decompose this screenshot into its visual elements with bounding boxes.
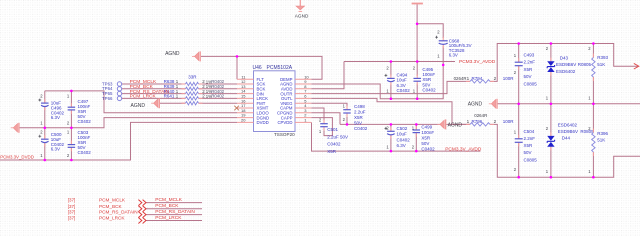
- junction (390.9,98.7): [390, 97, 393, 100]
- wire C494 column: [390, 62, 392, 99]
- svg-text:PCM5102A: PCM5102A: [267, 65, 293, 71]
- svg-text:2.2uF: 2.2uF: [354, 110, 366, 115]
- svg-text:1: 1: [467, 76, 470, 81]
- svg-text:[37]: [37]: [68, 198, 76, 203]
- svg-text:100R: 100R: [503, 119, 515, 124]
- wire CAPM to C501: [311, 108, 324, 124]
- svg-text:ESD6402: ESD6402: [556, 69, 576, 74]
- capacitor C496: [44, 99, 46, 103]
- wire AGND rail right to edge: [497, 103, 640, 105]
- svg-text:C0402: C0402: [327, 142, 341, 147]
- wire C498 bottom: [346, 113, 348, 124]
- svg-text:PCM_MCLK: PCM_MCLK: [155, 197, 182, 203]
- svg-text:PCM3.3V_AVDD: PCM3.3V_AVDD: [459, 59, 496, 65]
- wire C503 column: [70, 128, 72, 160]
- off-sheet exit OUT_R: [634, 63, 639, 69]
- wire CAPP to C501 bottom: [311, 118, 332, 136]
- wire VNEG to C498: [311, 103, 347, 110]
- svg-text:2: 2: [494, 76, 497, 81]
- svg-text:ESD6402: ESD6402: [558, 123, 578, 128]
- ground AGND arrow right mid: [491, 100, 495, 108]
- wire OUTR to R794: [311, 81, 470, 93]
- svg-text:2.2nF: 2.2nF: [524, 136, 536, 141]
- svg-text:C499: C499: [421, 125, 432, 130]
- svg-text:[37]: [37]: [68, 216, 76, 221]
- wire PCM3.3V_DVDD rail / DVDD pin20: [0, 122, 237, 160]
- svg-text:X5R: X5R: [354, 115, 364, 120]
- svg-text:TP66: TP66: [102, 96, 113, 101]
- wire C968 branch: [417, 24, 443, 65]
- svg-text:C0402: C0402: [78, 150, 92, 155]
- capacitor C495: [416, 74, 418, 78]
- ground AGND arrow row B: [440, 120, 444, 128]
- ground AGND floating top: [299, 0, 301, 6]
- svg-text:6.3V: 6.3V: [51, 147, 60, 152]
- svg-text:[37]: [37]: [68, 210, 76, 215]
- ground AGND arrow left ladder: [13, 124, 17, 132]
- svg-text:C0402: C0402: [397, 88, 411, 93]
- svg-text:AGND: AGND: [448, 122, 463, 128]
- svg-text:R0402: R0402: [211, 94, 224, 99]
- svg-text:AGND: AGND: [165, 51, 180, 57]
- junction (71.4,90.9): [70, 90, 73, 93]
- svg-text:PCM3.3V_AVDD: PCM3.3V_AVDD: [445, 146, 482, 152]
- resistor R796 100R: [466, 123, 470, 125]
- capacitor C501: [323, 120, 325, 124]
- svg-text:R0805: R0805: [578, 62, 592, 67]
- capacitor C504: [518, 135, 520, 139]
- svg-text:C493: C493: [524, 53, 535, 58]
- svg-text:C0805: C0805: [524, 81, 538, 86]
- junction (416.3,151.1): [415, 150, 418, 153]
- svg-text:C0402: C0402: [78, 119, 92, 124]
- svg-text:PCM_LRCK: PCM_LRCK: [155, 215, 182, 221]
- svg-text:10uF: 10uF: [51, 137, 62, 142]
- junction (443.2,64.9): [442, 64, 445, 67]
- svg-text:6.3V: 6.3V: [397, 143, 406, 148]
- svg-text:C0402: C0402: [422, 88, 436, 93]
- resistor R794 100R: [466, 80, 470, 82]
- wire local AGND rail (C498/C502/C499): [340, 123, 440, 125]
- wire C497 column: [70, 91, 72, 128]
- wire R796 out riser / OUT_L rail: [490, 124, 640, 177]
- wire AGND loop FLT/DEMP: [201, 56, 322, 79]
- wire C495 column: [416, 62, 418, 99]
- svg-text:R796: R796: [472, 119, 483, 124]
- svg-text:U46: U46: [253, 65, 262, 71]
- capacitor C503: [70, 141, 72, 145]
- svg-text:C0402: C0402: [421, 146, 435, 151]
- junction (518.7,43.5): [517, 42, 520, 45]
- wire C496 column: [44, 91, 46, 128]
- svg-text:R393: R393: [597, 55, 608, 60]
- resistor R640 33R: [182, 93, 186, 95]
- svg-text:PCM_BCK: PCM_BCK: [99, 204, 123, 209]
- wire AGND mid rail / DGND pin19: [19, 118, 237, 128]
- svg-text:ESD9B6V: ESD9B6V: [556, 62, 576, 67]
- junction (550.9,103.8): [550, 103, 553, 106]
- wire PCM_BCK stub bottom: [146, 208, 202, 210]
- wire power port stem: [416, 4, 418, 61]
- svg-text:R794: R794: [472, 76, 483, 81]
- svg-text:C502: C502: [397, 126, 408, 131]
- wire C493 column: [518, 44, 520, 104]
- svg-text:X5R: X5R: [327, 149, 337, 154]
- wire CPGND riser: [311, 113, 340, 125]
- junction (347,124.4): [346, 123, 349, 126]
- wire PCM_LRCK stub bottom: [146, 220, 202, 222]
- testpoint TP64: [117, 87, 121, 91]
- junction (518.7,177.2): [517, 176, 520, 179]
- svg-text:6.3V: 6.3V: [449, 53, 458, 58]
- svg-text:20: 20: [241, 118, 246, 123]
- power port PCM3.3V_AVDD bar: [412, 3, 423, 5]
- capacitor C498: [346, 106, 348, 110]
- testpoint TP65: [117, 91, 121, 95]
- svg-text:[37]: [37]: [68, 204, 76, 209]
- svg-text:DVDD: DVDD: [257, 120, 269, 125]
- svg-text:6.3V: 6.3V: [51, 115, 60, 120]
- svg-text:AGND: AGND: [468, 102, 483, 108]
- svg-text:D44: D44: [562, 136, 571, 141]
- capacitor C494: [390, 74, 392, 78]
- svg-text:X5R: X5R: [524, 143, 534, 148]
- resistor R641 33R: [182, 97, 186, 99]
- junction (44.8,160): [44, 159, 47, 162]
- op IC U46 PCM5102A box: [254, 71, 296, 132]
- svg-text:X5R: X5R: [524, 67, 534, 72]
- wire FMT row to AGND arrow: [160, 102, 237, 104]
- resistor R639 33R: [182, 88, 186, 90]
- svg-text:C504: C504: [524, 129, 535, 134]
- pin stubs left: [237, 78, 254, 80]
- junction (593.4,103.8): [592, 103, 595, 106]
- svg-text:100nF: 100nF: [421, 130, 434, 135]
- svg-text:2: 2: [494, 119, 497, 124]
- ground AGND arrow FMT: [154, 99, 158, 107]
- svg-text:10uF: 10uF: [397, 132, 408, 137]
- wire PCM_RS_DATAIN row: [122, 93, 237, 95]
- junction (71.4,160): [70, 159, 73, 162]
- svg-text:50V: 50V: [354, 121, 362, 126]
- svg-text:51K: 51K: [597, 137, 605, 142]
- svg-text:50V: 50V: [421, 141, 429, 146]
- capacitor C493: [518, 58, 520, 62]
- junction (390.9,151.1): [390, 150, 393, 153]
- testpoint TP66: [117, 96, 121, 100]
- wire PCM3.3V_AVDD top rail: [344, 61, 455, 63]
- svg-text:C501: C501: [327, 127, 338, 132]
- svg-text:R396: R396: [597, 131, 608, 136]
- wire AVDD pin8 to top rail: [311, 62, 344, 89]
- wire C499 column: [415, 124, 417, 151]
- wire R794 out riser / OUT_R rail: [490, 44, 638, 82]
- svg-text:50V: 50V: [524, 74, 532, 79]
- junction (550.9,177.2): [550, 176, 553, 179]
- wire R396 column: [592, 104, 594, 177]
- wire PCM_MCLK row: [122, 83, 237, 85]
- svg-text:X5R: X5R: [421, 136, 431, 141]
- wire PCM_BCK row: [122, 88, 237, 90]
- svg-text:PCM_LRCK: PCM_LRCK: [99, 216, 125, 221]
- pin stubs right: [295, 121, 311, 123]
- junction (593.4,43.5): [592, 42, 595, 45]
- ground AGND arrow top loop: [195, 52, 199, 60]
- wire FLT riser: [236, 56, 238, 79]
- svg-text:51K: 51K: [597, 62, 605, 67]
- svg-text:2.2uF 50V: 2.2uF 50V: [327, 135, 348, 140]
- capacitor C500: [44, 135, 46, 139]
- svg-text:PCM_BCK: PCM_BCK: [155, 203, 179, 209]
- junction (416.3,124.4): [415, 123, 418, 126]
- svg-text:AGND: AGND: [295, 13, 309, 18]
- svg-text:PCM3.3V_DVDD: PCM3.3V_DVDD: [0, 155, 34, 160]
- wire PCM_RS_DATAIN stub bottom: [146, 214, 202, 216]
- resistor R638 33R: [182, 83, 186, 85]
- svg-text:C498: C498: [354, 104, 365, 109]
- svg-text:AGND: AGND: [131, 103, 146, 109]
- junction (593.4,177.2): [592, 176, 595, 179]
- svg-text:C0402: C0402: [354, 126, 368, 131]
- svg-text:D43: D43: [560, 56, 569, 61]
- svg-text:C0805: C0805: [524, 158, 538, 163]
- junction (417.2,61.5): [416, 60, 419, 63]
- no-connect X on XSMT: [234, 106, 239, 111]
- resistor R642 33R on FMT: [182, 102, 186, 104]
- svg-text:TSSOP20: TSSOP20: [274, 132, 295, 137]
- wire row B arrow to R796: [446, 123, 470, 125]
- svg-text:6.3V: 6.3V: [397, 83, 406, 88]
- diode D44 ESD: [550, 132, 552, 136]
- wire PCM_MCLK stub bottom: [146, 202, 202, 204]
- wire C502 column: [390, 124, 392, 151]
- junction (237,56.4): [236, 55, 239, 58]
- junction (417.2,98.7): [416, 97, 419, 100]
- junction (71.4,127.8): [70, 127, 73, 130]
- testpoint TP63: [117, 82, 121, 86]
- junction (390.9,61.5): [390, 60, 393, 63]
- wire C504 column: [518, 104, 520, 177]
- capacitor C502: [390, 127, 392, 131]
- junction (417.1,23.8): [416, 23, 419, 26]
- wire CPVDD to bottom AVDD rail: [312, 122, 481, 151]
- capacitor C499: [415, 126, 417, 130]
- wire C500 column: [44, 128, 46, 160]
- svg-text:C0402: C0402: [397, 137, 411, 142]
- wire D44 column: [550, 104, 552, 177]
- svg-text:2.2nF: 2.2nF: [524, 60, 536, 65]
- svg-text:CPVDD: CPVDD: [277, 120, 292, 125]
- wire R393 column: [592, 44, 594, 104]
- diode D43 ESD: [550, 58, 552, 62]
- wire OUTL to riser: [311, 98, 470, 124]
- svg-text:10: 10: [304, 74, 309, 79]
- capacitor C968 tantalum: [442, 37, 444, 41]
- svg-text:33R: 33R: [188, 75, 197, 80]
- svg-text:PCM_LRCK: PCM_LRCK: [130, 94, 157, 100]
- svg-text:0264R: 0264R: [474, 113, 487, 118]
- wire LDOO pin18 to C496/C497 rail: [45, 91, 237, 113]
- svg-text:1: 1: [467, 119, 470, 124]
- wire D43 column: [550, 44, 552, 104]
- svg-text:ESD9B6V: ESD9B6V: [558, 129, 578, 134]
- svg-text:PCM_MCLK: PCM_MCLK: [99, 198, 126, 203]
- wire PCM_LRCK row: [122, 97, 237, 99]
- wire AGND pin9 to right AGND rail: [311, 65, 443, 99]
- svg-text:100R: 100R: [503, 76, 515, 81]
- junction (390.9,124.4): [390, 123, 393, 126]
- capacitor C497: [70, 103, 72, 107]
- resistor R396 51K: [592, 129, 594, 133]
- junction (44.8,127.8): [44, 127, 47, 130]
- junction (550.9,43.5): [550, 42, 553, 45]
- resistor R393 51K: [592, 54, 594, 58]
- svg-text:PCM_RS_DATAIN: PCM_RS_DATAIN: [155, 209, 195, 215]
- svg-text:0264R: 0264R: [454, 76, 467, 81]
- svg-text:PCM_RS_DATAIN: PCM_RS_DATAIN: [99, 210, 138, 215]
- junction (518.7,103.8): [517, 103, 520, 106]
- svg-text:50V: 50V: [524, 150, 532, 155]
